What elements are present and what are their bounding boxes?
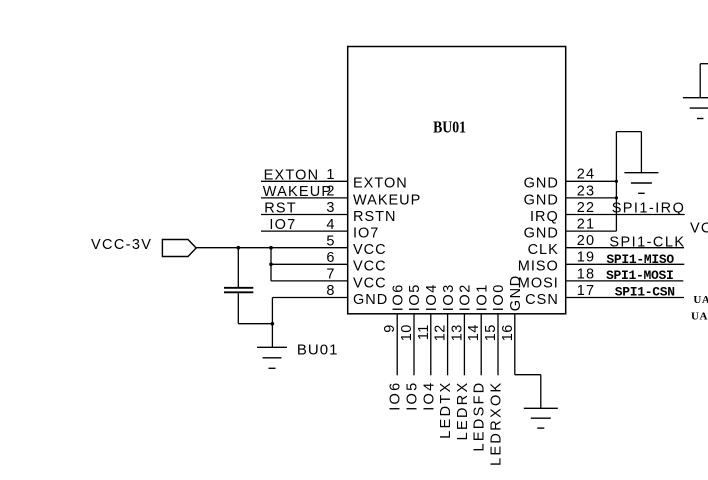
svg-text:SPI1-CSN: SPI1-CSN xyxy=(615,285,675,300)
node junction pin 24 / GND bus xyxy=(615,180,618,183)
wire U1 pin 15 down xyxy=(497,314,499,376)
svg-text:VCC: VCC xyxy=(353,242,387,258)
svg-text:RST: RST xyxy=(264,201,297,217)
wire U1 pin 18 xyxy=(566,280,684,282)
wire pin 16 drop to ground xyxy=(540,375,542,409)
svg-text:UART-RX: UART-RX xyxy=(691,311,708,323)
svg-text:SPI1-CLK: SPI1-CLK xyxy=(609,234,685,250)
svg-text:18: 18 xyxy=(577,266,596,282)
wire GND bus vertical (pins 24/23/21) xyxy=(615,132,617,232)
svg-text:VCC: VCC xyxy=(353,275,387,291)
svg-text:BU01: BU01 xyxy=(433,118,466,137)
svg-text:5: 5 xyxy=(326,233,334,249)
wire GND bus top jog xyxy=(616,131,641,133)
svg-text:UART-TX: UART-TX xyxy=(693,294,708,306)
svg-text:IO5: IO5 xyxy=(407,283,423,311)
wire VCC-3V main rail to U1 pin 5 xyxy=(196,247,348,249)
svg-text:24: 24 xyxy=(577,167,596,183)
svg-text:IO4: IO4 xyxy=(424,283,440,311)
svg-text:LEDRX: LEDRX xyxy=(455,381,471,441)
svg-text:CLK: CLK xyxy=(528,242,559,258)
svg-text:MISO: MISO xyxy=(518,259,559,275)
svg-text:VCC-3V: VCC-3V xyxy=(91,237,152,253)
wire U1 pin 16 down xyxy=(514,314,516,375)
svg-text:IO6: IO6 xyxy=(388,381,404,411)
node junction VCC branch pin 6 xyxy=(269,263,273,267)
svg-text:6: 6 xyxy=(326,250,334,266)
wire pin 8 down to ground xyxy=(271,298,273,348)
wire net EXTON to U1 pin 1 xyxy=(261,180,348,182)
wire U1 pin 19 xyxy=(566,263,685,265)
wire U1 pin 14 down xyxy=(480,314,482,376)
node junction cap tap on VCC rail xyxy=(237,246,241,250)
node junction ground net xyxy=(271,322,275,326)
wire C1 bottom to ground net xyxy=(238,323,272,325)
wire U1 pin 17 xyxy=(566,297,684,299)
wire from right edge to top-right ground xyxy=(700,63,708,65)
svg-text:GND: GND xyxy=(524,226,559,242)
svg-text:4: 4 xyxy=(326,217,334,233)
svg-text:22: 22 xyxy=(577,200,596,216)
wire U1 pin 12 down xyxy=(447,314,449,376)
wire VCC branch to U1 pin 7 xyxy=(271,280,348,282)
wire VCC branch to U1 pin 6 xyxy=(271,263,348,265)
svg-text:23: 23 xyxy=(577,183,596,199)
wire U1 pin 21 xyxy=(566,230,617,232)
svg-text:2: 2 xyxy=(326,184,334,200)
svg-text:19: 19 xyxy=(577,250,596,266)
svg-text:IRQ: IRQ xyxy=(530,209,559,225)
svg-text:14: 14 xyxy=(466,324,482,341)
svg-text:RSTN: RSTN xyxy=(353,209,396,225)
wire net IO7 to U1 pin 4 xyxy=(261,230,348,232)
svg-text:IO1: IO1 xyxy=(474,283,490,311)
wire U1 pin 8 GND xyxy=(272,297,347,299)
wire U1 pin 11 down xyxy=(430,314,432,376)
svg-text:IO7: IO7 xyxy=(269,217,296,233)
svg-text:IO6: IO6 xyxy=(390,283,406,311)
wire net WAKEUP to U1 pin 2 xyxy=(261,197,348,199)
svg-text:SPI1-IRQ: SPI1-IRQ xyxy=(612,201,686,217)
wire U1 pin 10 down xyxy=(413,314,415,376)
svg-text:GND: GND xyxy=(524,192,559,208)
ground symbol right of chip xyxy=(624,172,658,174)
svg-text:VCC: VCC xyxy=(353,259,387,275)
power connector flag VCC-3V xyxy=(162,240,196,257)
node junction VCC rail / pins 6-7 branch xyxy=(269,246,273,250)
wire U1 pin 24 xyxy=(566,180,617,182)
node junction pin 23 / GND bus xyxy=(615,196,618,199)
svg-text:IO7: IO7 xyxy=(353,226,379,242)
IC U1 BU01 body outline xyxy=(348,47,566,314)
svg-text:VCC: VCC xyxy=(690,221,708,237)
svg-text:10: 10 xyxy=(399,324,415,341)
svg-text:SPI1-MOSI: SPI1-MOSI xyxy=(606,268,674,283)
svg-text:CSN: CSN xyxy=(525,292,559,308)
svg-text:LEDTX: LEDTX xyxy=(438,381,454,439)
wire pin 16 jog right xyxy=(515,374,541,376)
svg-text:8: 8 xyxy=(326,283,334,299)
wire U1 pin 23 xyxy=(566,197,617,199)
svg-text:3: 3 xyxy=(326,200,334,216)
svg-text:GND: GND xyxy=(524,176,559,192)
svg-text:12: 12 xyxy=(433,324,449,341)
svg-text:7: 7 xyxy=(326,267,334,283)
svg-text:IO0: IO0 xyxy=(491,283,507,311)
capacitor C1 bottom lead xyxy=(237,293,239,324)
wire VCC vertical branch pins 5-7 xyxy=(270,248,272,281)
capacitor C1 top plate xyxy=(224,287,253,289)
svg-text:SPI1-MISO: SPI1-MISO xyxy=(606,252,674,267)
wire U1 pin 22 xyxy=(566,214,685,216)
ground symbol bottom (pin 16) xyxy=(524,407,558,409)
svg-text:20: 20 xyxy=(577,233,596,249)
wire U1 pin 13 down xyxy=(463,314,465,376)
svg-text:LEDSFD: LEDSFD xyxy=(472,381,488,452)
wire U1 pin 9 down xyxy=(396,314,398,376)
svg-text:IO3: IO3 xyxy=(441,283,457,311)
svg-text:21: 21 xyxy=(577,217,596,233)
ground symbol left (C1 / pin 8) xyxy=(257,346,287,348)
wire U1 pin 20 xyxy=(566,247,684,249)
svg-text:EXTON: EXTON xyxy=(264,167,320,183)
svg-text:15: 15 xyxy=(483,324,499,341)
wire net RST to U1 pin 3 xyxy=(261,214,348,216)
svg-text:17: 17 xyxy=(577,283,596,299)
wire top-right ground drop xyxy=(699,64,701,98)
svg-text:1: 1 xyxy=(326,167,334,183)
capacitor C1 top lead xyxy=(237,248,239,287)
capacitor C1 bottom plate xyxy=(224,291,253,293)
svg-text:IO5: IO5 xyxy=(405,381,421,411)
svg-text:16: 16 xyxy=(500,324,516,341)
svg-text:WAKEUP: WAKEUP xyxy=(263,184,333,200)
svg-text:GND: GND xyxy=(508,274,524,311)
svg-text:13: 13 xyxy=(449,324,465,341)
svg-text:9: 9 xyxy=(382,324,398,332)
svg-text:LEDRXOK: LEDRXOK xyxy=(489,381,505,466)
svg-text:IO2: IO2 xyxy=(458,283,474,311)
svg-text:GND: GND xyxy=(353,292,388,308)
ground symbol top right (clipped) xyxy=(683,97,708,99)
svg-text:11: 11 xyxy=(416,324,432,340)
wire GND bus drop to ground xyxy=(640,132,642,173)
svg-text:WAKEUP: WAKEUP xyxy=(353,192,421,208)
svg-text:EXTON: EXTON xyxy=(353,176,408,192)
svg-text:BU01: BU01 xyxy=(297,341,339,358)
svg-text:IO4: IO4 xyxy=(421,381,437,411)
